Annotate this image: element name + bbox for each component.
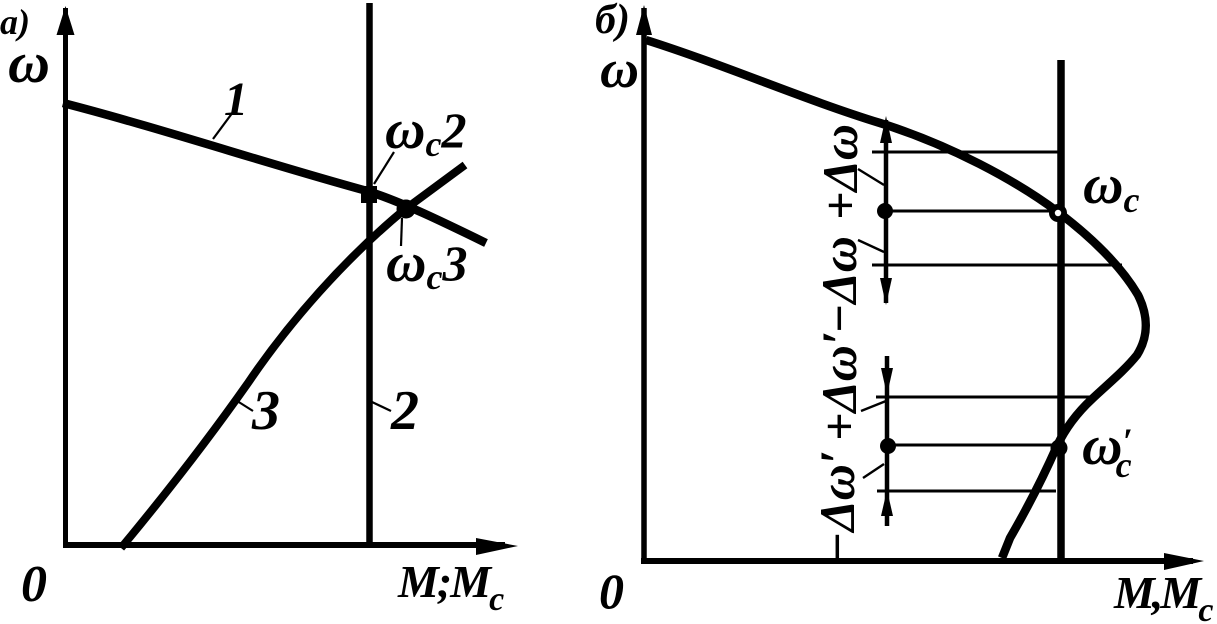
- leader for label 1: [213, 112, 233, 139]
- svg-text:ω: ω: [600, 39, 639, 99]
- svg-text:+Δω: +Δω: [812, 124, 868, 220]
- svg-text:0: 0: [599, 563, 624, 619]
- filled node omega'_c: [1051, 440, 1068, 457]
- lower dim down-arrow: [881, 368, 893, 395]
- svg-text:1: 1: [224, 73, 248, 126]
- upper dim down-arrow: [880, 278, 892, 305]
- hatch line 4: [876, 396, 1094, 399]
- y-axis (left chart): [63, 8, 68, 547]
- leader -dw: [858, 240, 884, 252]
- square node at curve1 x line2: [361, 186, 377, 203]
- y-axis arrowhead (right chart): [636, 5, 652, 35]
- hatch line 1: [872, 151, 1058, 154]
- lower dim dot: [880, 438, 896, 454]
- open circle node omega_c: [1049, 204, 1067, 222]
- leader +dw: [858, 169, 884, 185]
- svg-text:−Δω: −Δω: [811, 236, 867, 334]
- svg-text:−Δω′: −Δω′: [809, 450, 865, 562]
- curve 3 (rising characteristic): [121, 165, 465, 548]
- svg-text:б): б): [595, 0, 630, 43]
- x-axis arrowhead (right chart): [1164, 553, 1204, 570]
- lower dimension line: [885, 356, 890, 526]
- leader -dw': [863, 464, 884, 478]
- upper dim dot: [877, 203, 893, 219]
- svg-text:2: 2: [390, 380, 419, 442]
- hatch line 3: [872, 264, 1122, 267]
- upper dimension line: [884, 120, 889, 303]
- hatch line 2: [886, 210, 1052, 213]
- leader for label 3: [234, 399, 253, 411]
- svg-text:+Δω′: +Δω′: [811, 331, 867, 441]
- hatch line 6: [877, 490, 1056, 493]
- vertical Mc line (right chart): [1057, 60, 1065, 561]
- hatch line 5: [881, 444, 1052, 447]
- curve 1 (motor characteristic): [63, 103, 486, 243]
- vertical line 2: [366, 3, 373, 545]
- x-axis (left chart): [63, 542, 505, 548]
- leader omega_c2: [374, 152, 394, 184]
- round node at curve1 x curve3: [397, 200, 416, 219]
- leader omega_c3: [401, 218, 402, 246]
- lower dim up-arrow: [881, 490, 893, 516]
- svg-text:M,Mc: M,Mc: [1113, 567, 1213, 624]
- upper dim up-arrow: [880, 116, 892, 143]
- svg-text:ω′c: ω′c: [1082, 415, 1133, 485]
- x-axis (right chart): [641, 558, 1193, 564]
- leader for label 2: [372, 402, 391, 411]
- main S curve: [646, 40, 1146, 558]
- svg-text:3: 3: [251, 380, 280, 442]
- svg-text:ω: ω: [8, 30, 50, 95]
- leader +dw': [861, 401, 886, 411]
- y-axis arrowhead (left chart): [57, 6, 75, 35]
- svg-text:0: 0: [21, 556, 47, 613]
- y-axis (right chart): [641, 8, 647, 561]
- x-axis arrowhead (left chart): [476, 538, 518, 555]
